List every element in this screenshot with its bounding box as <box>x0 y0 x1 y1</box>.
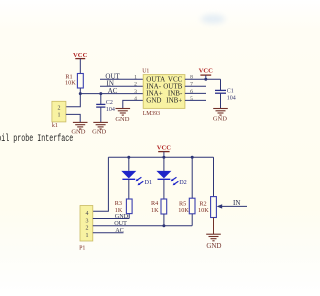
svg-text:VCC: VCC <box>73 52 88 59</box>
svg-text:1: 1 <box>134 75 137 81</box>
wire IC pin 4 to ground <box>123 100 143 108</box>
ground (k1 pin 1) <box>71 122 87 135</box>
resistor R4 <box>151 199 167 214</box>
wire pin 6 stub <box>185 92 206 94</box>
wire net OUT P1 pin 2 to R4/R5 <box>93 220 192 227</box>
node junction VCC/pin8 <box>204 78 207 81</box>
svg-text:10K: 10K <box>178 207 189 214</box>
svg-text:LM393: LM393 <box>143 111 160 117</box>
svg-text:10K: 10K <box>198 207 209 214</box>
svg-text:2: 2 <box>58 105 61 111</box>
svg-text:D1: D1 <box>145 179 153 186</box>
svg-text:GND: GND <box>115 213 129 220</box>
node junction rail/D1 <box>127 156 130 159</box>
svg-text:4: 4 <box>86 211 89 217</box>
svg-text:1: 1 <box>58 112 61 118</box>
svg-text:AC: AC <box>108 87 118 95</box>
wire pin 8 to VCC and C1 <box>185 78 221 80</box>
ground (IC pin 4) <box>115 109 130 123</box>
wire R2 to ground <box>213 218 215 235</box>
svg-text:OUT: OUT <box>114 220 127 227</box>
wire pin 7 stub <box>185 85 206 87</box>
wire D1 to R3 <box>128 179 130 199</box>
resistor R3 <box>115 199 132 214</box>
potentiometer R2 <box>198 157 222 217</box>
wire net IN to pin 2 <box>100 80 143 88</box>
svg-text:IN: IN <box>233 199 240 207</box>
wire R2 wiper to IN <box>222 205 248 207</box>
ground (C2) <box>92 122 108 135</box>
svg-text:Soil probe Interface: Soil probe Interface <box>0 133 73 145</box>
wire rail to P1 pin 4 <box>93 157 109 211</box>
LED D2 <box>156 157 186 186</box>
wire R1 bottom to AC node <box>79 88 81 94</box>
wire R3 to GND net <box>128 214 130 219</box>
ground (R2) <box>206 234 221 250</box>
wire AC net horizontal <box>80 93 143 95</box>
svg-text:6: 6 <box>190 89 193 95</box>
svg-text:1K: 1K <box>151 207 159 214</box>
capacitor C1 <box>215 79 236 108</box>
svg-text:2: 2 <box>134 82 137 88</box>
node junction C2/AC <box>99 92 102 95</box>
svg-text:1: 1 <box>86 233 89 239</box>
node junction rail/R5 <box>191 156 194 159</box>
ground (C1) <box>213 109 228 123</box>
svg-text:GND: GND <box>146 97 161 105</box>
wire net AC P1 pin 1 stub <box>93 227 124 234</box>
svg-text:C2: C2 <box>106 100 113 106</box>
LED D1 <box>121 157 152 186</box>
svg-text:VCC: VCC <box>199 67 214 74</box>
svg-text:D2: D2 <box>179 179 187 186</box>
svg-text:GND: GND <box>92 128 106 135</box>
svg-text:C1: C1 <box>227 88 234 94</box>
power symbol VCC (bottom) <box>157 144 172 157</box>
node junction R1/k1/AC <box>79 92 82 95</box>
wire k1 pin 1 to ground <box>66 114 80 122</box>
wire VCC rail <box>108 156 213 158</box>
wire R4 to OUT net <box>163 214 165 226</box>
node junction R4/OUT <box>162 224 165 227</box>
svg-text:4: 4 <box>134 96 137 102</box>
node junction rail/VCC <box>162 156 165 159</box>
svg-text:GND: GND <box>206 242 221 250</box>
svg-text:104: 104 <box>227 96 236 102</box>
wire VCC to R1 <box>79 59 81 74</box>
svg-text:2: 2 <box>86 226 89 232</box>
svg-text:3: 3 <box>134 89 137 95</box>
svg-text:AC: AC <box>115 227 124 234</box>
op-amp U1 LM393 <box>142 69 185 118</box>
svg-text:GND: GND <box>115 116 129 123</box>
svg-text:7: 7 <box>190 82 193 88</box>
svg-text:104: 104 <box>106 107 115 113</box>
svg-text:P1: P1 <box>79 246 85 252</box>
power symbol VCC (top-right) <box>199 67 214 79</box>
resistor R1 <box>65 73 83 88</box>
svg-text:8: 8 <box>190 75 193 81</box>
svg-text:VCC: VCC <box>157 144 172 151</box>
svg-text:U1: U1 <box>142 69 149 75</box>
wire net OUT to pin 1 <box>100 73 143 81</box>
svg-text:GND: GND <box>71 128 85 135</box>
svg-text:3: 3 <box>86 218 89 224</box>
svg-text:10K: 10K <box>65 80 76 87</box>
svg-text:k1: k1 <box>52 123 58 129</box>
wire pin 5 stub <box>185 99 206 101</box>
wire net GND P1 pin 3 to R3 <box>93 213 129 220</box>
svg-text:GND: GND <box>213 115 227 122</box>
power symbol VCC (top-left) <box>73 52 88 59</box>
connector P1 <box>79 206 93 252</box>
faint artifact smudge top right <box>201 15 225 24</box>
resistor R5 <box>178 157 195 225</box>
capacitor C2 <box>96 94 115 123</box>
wire D2 to R4 <box>163 179 165 199</box>
wire node to k1 pin 2 <box>66 94 80 107</box>
svg-text:5: 5 <box>190 96 193 102</box>
svg-text:INB+: INB+ <box>166 97 182 105</box>
connector k1 <box>52 101 66 129</box>
